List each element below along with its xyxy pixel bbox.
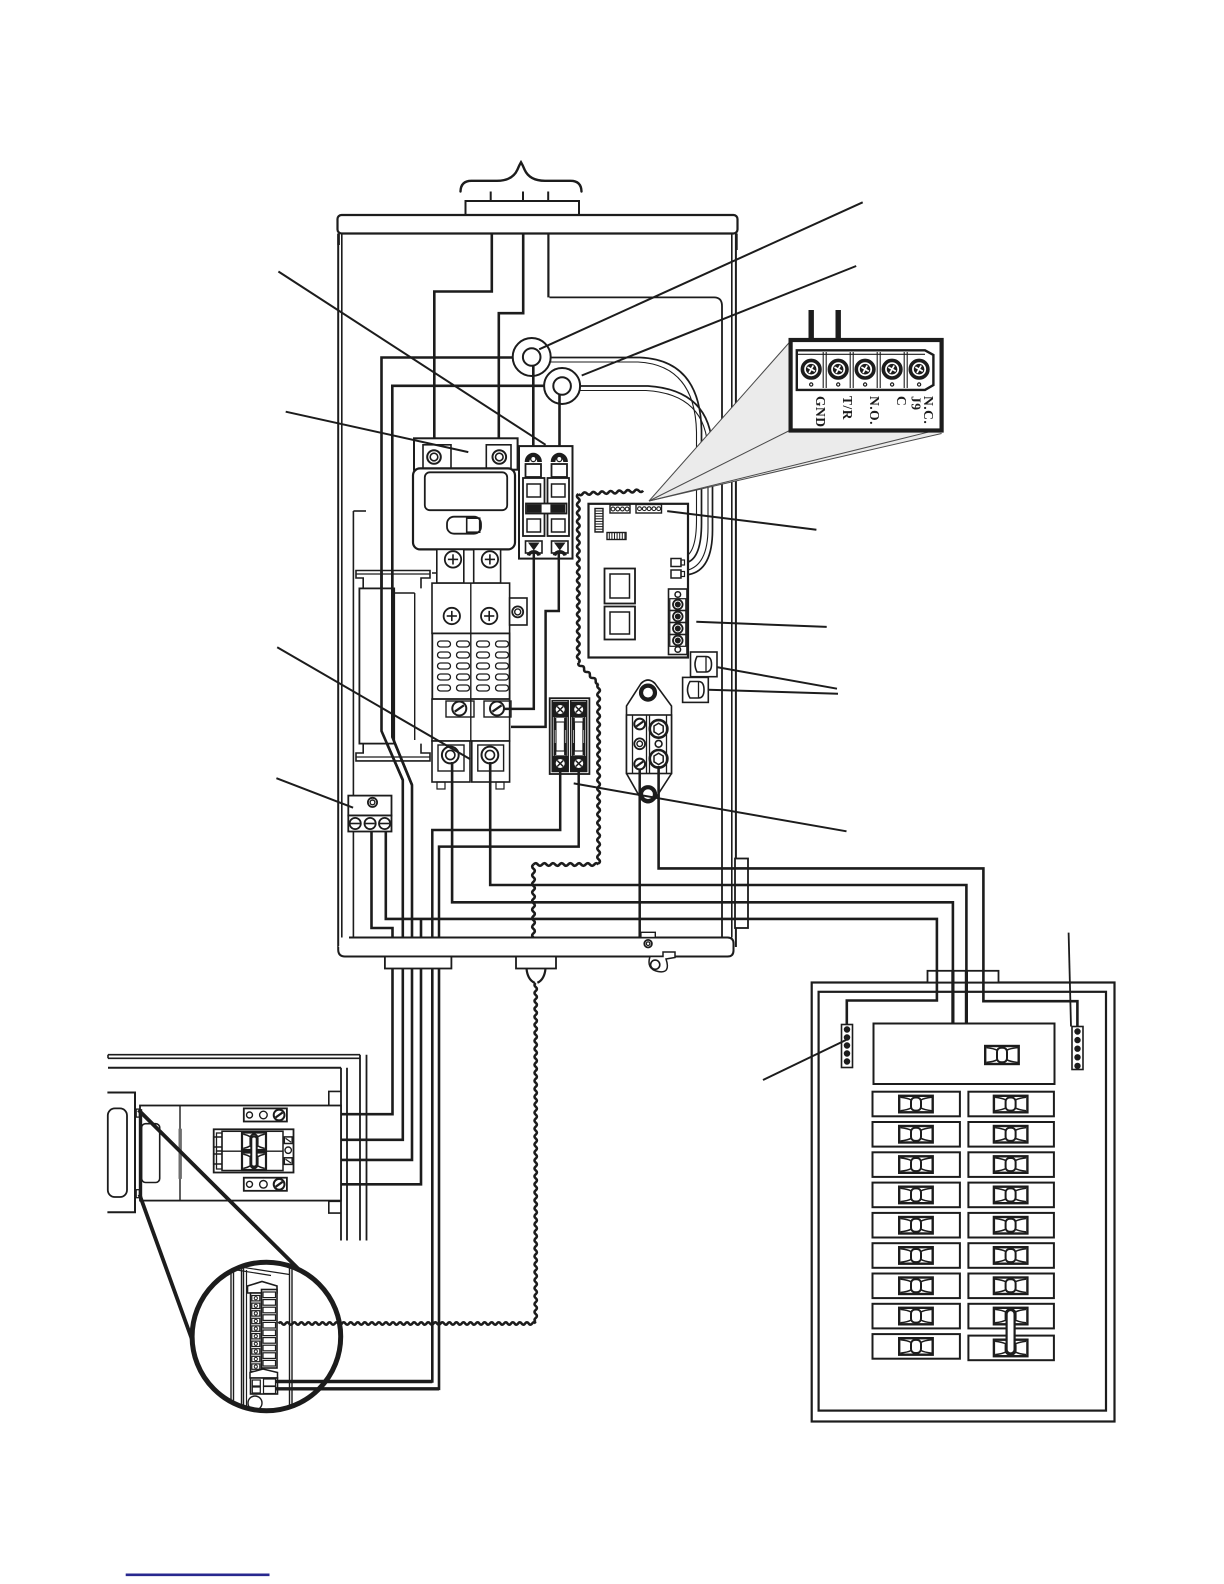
panel 2-pole breaker [214,1129,294,1172]
leader: to connector box2 [708,690,838,694]
wire: fuse2 down-left [439,771,579,938]
wire to left pin strip [847,983,937,1025]
lid lip ticks [337,234,340,246]
leader: to breaker [278,272,545,445]
wire harness squiggle around PCB [578,490,643,496]
breaker row 1 right [968,1092,1054,1117]
load center conduit stub [928,971,999,983]
breaker row 8 left [873,1304,960,1329]
breaker lug 2 [553,455,566,462]
enclosure conduit hub [466,201,580,215]
12-pin connector in detail [248,1282,278,1294]
magnified connector detail (clipped) [231,1262,292,1411]
wire: utility L1 from lid to contactor [434,234,492,441]
PCB terminal strip [669,589,688,655]
enclosure bottom band [338,938,733,957]
grommet 2 (knockout) [544,368,580,404]
enclosure left wall [337,234,339,948]
fuse holder block [550,698,590,774]
PCB spade terminals [671,559,681,567]
wire: generator L1 over bus (redraw) [382,570,403,780]
breaker row 5 right [968,1213,1054,1238]
breaker row 4 right [968,1183,1054,1208]
inner liner top edge [550,297,723,937]
wire: grommet2 down to breaker lug2 [558,395,561,452]
breaker terminals right [284,1137,292,1144]
svg-text:C: C [894,396,909,406]
load center main breaker box [874,1024,1055,1085]
curly brace above hub [461,162,582,191]
svg-text:GND: GND [813,396,828,428]
leader: to terminal block [276,778,353,808]
panel lug plate bottom [244,1178,287,1191]
neutral lug block (teardrop) [627,680,672,803]
wire to right pin strip [983,983,1077,1027]
cone origin tabs [136,1109,139,1117]
J9 screw 5 [910,360,928,378]
PCB connector box 1 [691,652,718,677]
breaker row 7 right [968,1274,1054,1299]
generator 2-pole breaker [519,446,573,558]
right wire stub below band [516,957,556,969]
wires into detail box terminals [809,310,814,352]
double pole tie bar [1007,1310,1015,1354]
wires in load center stub [936,971,939,983]
contactor side bracket screw [510,598,527,625]
wire: grommet2 to left bus (generator L2) [392,386,554,938]
PCB 4-pin header [610,505,630,513]
wire: breaker1 to contactor terminal [504,551,534,709]
contactor lower terminal deck [432,699,510,741]
enclosure right wall [735,234,737,948]
redraw bundle through bushing [735,867,748,870]
bottom band bracket screw [641,932,655,937]
J9 screw 3 [856,360,874,378]
panel lug plate top [244,1108,287,1121]
svg-text:N.C.: N.C. [921,396,936,424]
neutral bus bar assembly left [359,588,394,743]
left wire stub below band [385,957,452,969]
leader: to fuse/lug [574,783,847,831]
leader: to contactor [286,412,469,452]
inner liner left edge [353,510,366,512]
harness squiggle below enclosure to detail circle [535,983,537,1322]
wire: center conduit stub line [547,234,549,298]
breaker row 9 right [968,1336,1054,1361]
wire: grommet1 to left bus (generator L1) [382,358,525,938]
wire: terminal block to loadcenter (D) [386,832,937,971]
detail box J9 terminal strip [791,340,942,431]
load center outer box [812,983,1115,1422]
contactor lug blocks bottom [432,741,470,782]
breaker row 1 left [873,1092,960,1117]
contactor screw B [493,450,507,464]
service panel right rail pair 2 [359,1055,361,1241]
breaker row 2 left [873,1122,960,1147]
magnifier cone line 1 [139,1110,300,1270]
wire: breaker2 to contactor terminal [511,551,559,727]
contactor screw A [427,450,441,464]
leader: to PCB [667,511,816,530]
service panel right rail pair 1 [340,1068,342,1241]
bottom band hook [649,952,675,972]
svg-text:T/R: T/R [840,396,855,420]
leader: to connector box1 [717,667,837,689]
left pin strip [842,1025,853,1068]
rail tabs [329,1091,341,1107]
wire: grommet1 down to breaker lug1 [532,366,535,452]
contactor body [413,468,515,549]
breaker row 5 left [873,1213,960,1238]
breaker row 8 right [968,1304,1054,1329]
meter flange box [107,1093,135,1213]
wire: grommet2 to PCB spade (curved) [572,386,713,575]
grey pointer fan to detail box [649,341,791,501]
right pin strip [1072,1027,1083,1070]
fuse at x=578.7 [571,703,586,717]
wire: thick pair into detail connector [276,1380,432,1383]
contactor top mounting plate [414,438,518,469]
breaker row 3 right [968,1152,1054,1177]
magnifier circle [192,1262,341,1411]
wire: contactor R to loadcenter (B) [490,762,966,971]
PCB relay 2 [605,607,636,640]
PCB horizontal DIP connector [607,533,626,540]
wire: utility L2 from lid to contactor [499,234,523,441]
strain relief funnel [527,969,535,983]
PCB 5-pin header J9 [636,505,662,514]
main transfer switch enclosure lid [338,215,738,234]
service panel top rails [108,1054,360,1056]
right wall bushing [735,859,748,929]
breaker poles [523,478,545,536]
wire: branch at 421 down [420,919,423,938]
leader: to right pin strip [1069,933,1071,1027]
main breaker toggle [985,1046,1019,1064]
fuse at x=560.2 [553,703,568,717]
wire: lug block to loadcenter (A) [638,770,641,938]
contactor louver block [432,633,509,699]
leader: to left pin strip [763,1040,846,1080]
J9 screw 2 [829,360,847,378]
contactor bus strap left [437,549,464,583]
PCB vertical DIP connector [595,509,603,533]
breaker handle tie [526,504,567,514]
PCB connector box 2 [683,677,709,702]
contactor mid section [432,583,510,633]
wire: terminal block wire 1 [372,832,393,938]
panel interior box [140,1106,341,1201]
contactor switch slot [447,517,481,534]
breaker row 6 left [873,1243,960,1268]
PCB relay 1 [605,569,636,604]
breaker lug 1 [527,455,540,462]
blue footer rule [126,1574,270,1577]
wire: fuse1 down-left [432,771,560,938]
breaker row 4 left [873,1183,960,1208]
wire: generator L2 over bus (redraw) [392,570,412,785]
breaker row 2 right [968,1122,1054,1147]
control PCB [589,504,689,658]
bus bar top flange [356,571,430,589]
breaker row 6 right [968,1243,1054,1268]
2-pin connector in detail [250,1369,278,1378]
main feed wires [951,983,954,1024]
J9 screw 1 [802,360,820,378]
magnifier cone line 2 [140,1195,192,1340]
wire: contactor L to loadcenter (C) [452,762,953,971]
bus bar bottom flange [356,744,430,761]
small terminal block (3 screws) [348,796,391,816]
breaker bottom clamps [526,541,543,553]
grommet 1 (knockout) [513,338,551,376]
breaker row 9 left [873,1334,960,1359]
contactor bus strap right [474,549,501,583]
leader: grommet1 label [539,202,863,349]
leader: to contactor bottom [277,647,470,759]
wire: grommet1 to PCB spade (curved) [540,358,702,563]
wires through left stub continuing down [287,969,393,1115]
J9 screw 4 [883,360,901,378]
svg-text:N.O.: N.O. [867,396,882,425]
leader: grommet2 label [582,266,857,376]
breaker row 7 left [873,1274,960,1299]
leader: to PCB strip [696,622,826,627]
lug block body [627,715,672,774]
breaker row 3 left [873,1152,960,1177]
